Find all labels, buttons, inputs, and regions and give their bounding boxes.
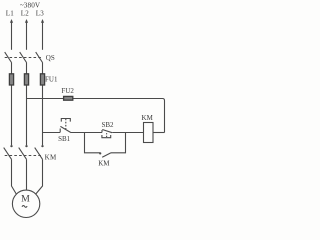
switch QS pole 1 blade xyxy=(5,52,12,62)
wire motor lead 3 xyxy=(36,159,43,194)
switch QS pole 3 blade xyxy=(36,52,43,62)
svg-text:SB2: SB2 xyxy=(101,121,114,129)
svg-text:KM: KM xyxy=(142,114,154,122)
fuse FU1 pole 3 xyxy=(40,74,44,85)
motor M circle xyxy=(12,190,39,217)
contactor KM main contact pole 1 xyxy=(4,145,13,159)
svg-text:KM: KM xyxy=(45,154,57,162)
contactor KM main contact pole 3 xyxy=(35,145,44,159)
svg-text:KM: KM xyxy=(98,160,110,168)
wire SB1 to SB2 xyxy=(71,132,102,134)
wire phase 1 vertical xyxy=(11,63,13,146)
svg-text:SB1: SB1 xyxy=(58,135,71,143)
arrow L2 xyxy=(25,19,28,50)
fuse FU1 pole 2 xyxy=(24,74,28,85)
KM aux contact branch (self-hold) xyxy=(85,133,126,158)
switch QS pole 2 blade xyxy=(20,52,27,62)
wire phase 3 vertical xyxy=(42,63,44,146)
fuse FU1 pole 1 xyxy=(9,74,13,85)
wire motor lead 2 xyxy=(26,159,28,190)
arrow L1 xyxy=(10,19,13,50)
coil KM xyxy=(144,123,154,143)
wire control feed from phase 3 xyxy=(43,132,61,134)
svg-text:L1: L1 xyxy=(6,10,14,18)
fuse FU2 xyxy=(64,96,73,100)
wire coil to right rail xyxy=(153,132,165,134)
svg-text:QS: QS xyxy=(46,54,55,62)
motor tilde xyxy=(22,206,27,208)
pushbutton SB1 (stop, NC) xyxy=(60,119,71,133)
arrow L3 xyxy=(41,19,44,50)
pushbutton SB2 (start, NO) xyxy=(102,130,112,138)
wire SB2 to coil xyxy=(112,132,143,134)
wire phase 2 vertical xyxy=(26,63,28,146)
svg-text:FU2: FU2 xyxy=(61,87,74,95)
svg-text:~380V: ~380V xyxy=(20,2,41,10)
wire motor lead 1 xyxy=(12,159,17,194)
contactor KM main contact pole 2 xyxy=(19,145,28,159)
QS linkage dashed line xyxy=(5,57,42,59)
svg-text:L3: L3 xyxy=(36,10,44,18)
svg-text:FU1: FU1 xyxy=(45,75,58,83)
KM linkage dashed line xyxy=(5,155,42,157)
svg-text:M: M xyxy=(21,193,30,204)
control top rail wire xyxy=(27,99,165,133)
svg-text:L2: L2 xyxy=(21,10,29,18)
